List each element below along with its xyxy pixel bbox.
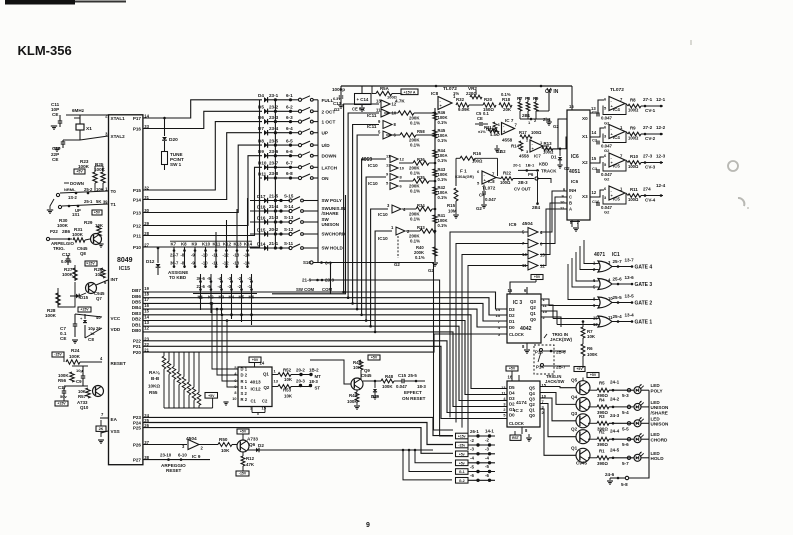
fuse F1: [455, 169, 478, 187]
svg-text:27-1: 27-1: [643, 97, 653, 102]
svg-text:R48: R48: [385, 374, 394, 379]
resistor R10: [626, 154, 666, 170]
svg-text:JACK(SW): JACK(SW): [550, 337, 572, 342]
svg-text:CV IN: CV IN: [545, 89, 559, 95]
label led /SHARE1: [651, 410, 668, 415]
wire com exit b: [331, 280, 454, 436]
svg-text:1S-2: 1S-2: [68, 195, 78, 200]
resistor array R55 element 8: [197, 352, 201, 408]
svg-text:13-5: 13-5: [625, 294, 635, 299]
wire bus DB1: [143, 326, 507, 400]
svg-text:13-4: 13-4: [625, 313, 635, 318]
resistor array R55 element 2: [167, 352, 171, 408]
svg-text:C15: C15: [398, 373, 407, 378]
svg-text:K14: K14: [244, 242, 253, 247]
scan artifact top bar: [5, 0, 126, 5]
svg-text:C12: C12: [62, 252, 71, 257]
svg-text:0.047: 0.047: [485, 197, 497, 202]
svg-text:T1: T1: [111, 202, 117, 207]
diode D20: [162, 118, 178, 143]
svg-text:10K: 10K: [284, 377, 293, 382]
svg-text:RA⅛: RA⅛: [149, 370, 161, 375]
resistor R40: [414, 245, 437, 260]
svg-text:-15V: -15V: [54, 353, 62, 357]
wire port staircase 4: [143, 133, 262, 200]
svg-text:-2: -2: [485, 438, 489, 443]
svg-text:G2: G2: [428, 268, 434, 273]
svg-text:K11: K11: [213, 242, 221, 247]
svg-text:R 1: R 1: [241, 379, 248, 384]
svg-text:CV-3: CV-3: [645, 165, 656, 170]
svg-text:16: 16: [508, 375, 513, 380]
transistor Q1: [540, 409, 590, 462]
pin IC2 left numbers: [501, 386, 506, 418]
label SWUNIS.IN: [322, 206, 346, 211]
svg-text:CLOCK: CLOCK: [509, 332, 524, 337]
svg-text:10KΩ: 10KΩ: [148, 384, 160, 389]
svg-text:11: 11: [376, 108, 381, 113]
svg-text:5: 5: [503, 414, 505, 418]
power +5V box ic9: [531, 275, 543, 280]
svg-text:Q0: Q0: [529, 413, 535, 418]
svg-text:C1: C1: [592, 110, 598, 115]
label led LED3: [651, 432, 661, 437]
pin IC3 right numbers: [543, 297, 548, 320]
op-amp IC7a: [494, 118, 517, 154]
power +5V box p14: [574, 367, 585, 372]
svg-text:R4: R4: [599, 397, 605, 402]
switch UP: [47, 199, 108, 217]
label /SHARE: [322, 211, 339, 216]
svg-text:-11: -11: [212, 253, 218, 258]
resistor R52: [272, 368, 321, 383]
buffer IC9 a: [508, 228, 543, 237]
wire led common: [605, 390, 649, 487]
wire DAC bit 5: [351, 125, 379, 305]
svg-text:Q10: Q10: [80, 405, 89, 410]
resistor R3: [588, 413, 634, 432]
wire conn tails: [415, 450, 452, 463]
svg-text:CE 0.1: CE 0.1: [352, 107, 365, 112]
node column K6: [248, 274, 255, 325]
svg-text:2B-3: 2B-3: [518, 180, 528, 185]
connector -2: [456, 438, 496, 448]
svg-text:15: 15: [592, 156, 597, 161]
node KBD TRACK2: [513, 162, 557, 174]
svg-text:D15: D15: [80, 295, 89, 300]
svg-text:D20: D20: [169, 137, 178, 143]
op-amp IC8: [431, 86, 457, 110]
svg-text:0.047: 0.047: [396, 384, 408, 389]
svg-text:13: 13: [501, 386, 505, 390]
power +15V A box: [400, 89, 418, 95]
svg-text:DB4: DB4: [132, 305, 142, 310]
power -15V box a: [85, 261, 97, 266]
svg-text:A733: A733: [247, 437, 258, 442]
label arpeggio trig: [51, 241, 75, 251]
svg-text:D8: D8: [258, 139, 264, 144]
wire port staircase 7: [143, 167, 262, 235]
resistor R32: [453, 91, 471, 112]
resistor R13: [542, 141, 560, 155]
svg-text:HOLD: HOLD: [651, 456, 665, 461]
svg-text:SW HOLD: SW HOLD: [322, 246, 344, 251]
svg-text:VCC: VCC: [111, 316, 121, 321]
svg-text:12-4: 12-4: [656, 183, 666, 188]
svg-text:P16: P16: [133, 126, 142, 131]
svg-text:P14: P14: [536, 365, 544, 370]
resistor array R55 element 3: [172, 352, 176, 408]
label C945 drivers: [576, 461, 587, 466]
svg-text:R33: R33: [417, 225, 425, 230]
inverter IC10 c: [386, 172, 403, 181]
svg-text:+5v: +5v: [459, 461, 465, 465]
svg-text:VSS: VSS: [111, 429, 120, 434]
svg-text:G2: G2: [334, 107, 340, 112]
capacitor C16 0.047: [592, 193, 626, 215]
svg-text:IC11: IC11: [367, 113, 377, 118]
resistor 200K shunt 5: [402, 203, 436, 222]
svg-text:5-8: 5-8: [621, 482, 628, 487]
label led LED0: [651, 383, 661, 388]
wires q7 area: [58, 265, 75, 307]
switch S-12: [289, 230, 318, 236]
svg-text:10K: 10K: [221, 448, 230, 453]
svg-text:40: 40: [96, 315, 101, 320]
svg-text:D3: D3: [509, 307, 515, 312]
capacitor C9: [76, 366, 85, 386]
diode D2: [247, 436, 433, 453]
svg-text:100Ω: 100Ω: [628, 136, 639, 141]
resistor R43: [433, 167, 448, 182]
resistor R26: [94, 267, 105, 278]
svg-text:K9: K9: [192, 242, 198, 247]
svg-text:DB6: DB6: [132, 294, 142, 299]
or-gate IC1 c: [593, 294, 652, 309]
node column K9: [191, 242, 198, 269]
svg-text:R55: R55: [149, 390, 158, 395]
svg-text:XTAL2: XTAL2: [111, 134, 126, 139]
svg-text:R29: R29: [84, 220, 93, 225]
svg-text:24-6: 24-6: [605, 472, 615, 477]
label trig in jacksw: [544, 332, 572, 342]
wire com exit a: [331, 263, 454, 431]
svg-text:UNISON: UNISON: [322, 222, 340, 227]
wire bus P20: [143, 334, 507, 352]
svg-text:DB3: DB3: [132, 311, 142, 316]
svg-text:P22: P22: [133, 339, 142, 344]
svg-text:4013: 4013: [250, 380, 261, 386]
resistor R11: [626, 183, 666, 203]
pin DB1: [132, 320, 150, 327]
svg-text:D7: D7: [258, 126, 264, 131]
svg-text:2: 2: [503, 408, 505, 412]
svg-text:P13: P13: [133, 210, 142, 215]
svg-text:8: 8: [234, 391, 236, 395]
svg-text:100Ω: 100Ω: [628, 108, 639, 113]
svg-text:Q1: Q1: [529, 408, 535, 413]
switch 1 OCT: [291, 118, 336, 125]
pin P25: [133, 423, 150, 430]
svg-text:100K: 100K: [78, 164, 90, 169]
wire port staircase 3: [143, 122, 262, 190]
resistor R5A: [341, 86, 436, 104]
resistor R27: [62, 267, 77, 280]
svg-text:20-1: 20-1: [513, 163, 522, 168]
pin IC6 b: [555, 200, 572, 206]
svg-text:SW 1: SW 1: [170, 162, 182, 167]
svg-text:6-7: 6-7: [286, 161, 293, 166]
svg-text:20-3: 20-3: [296, 379, 305, 384]
resistor R9b: [533, 96, 539, 111]
label TL072 out: [610, 87, 624, 93]
svg-text:R47: R47: [349, 393, 358, 398]
svg-text:D15: D15: [257, 227, 266, 232]
resistor R15: [447, 188, 459, 218]
svg-text:100Ω: 100Ω: [628, 164, 639, 169]
resistor R14: [511, 141, 523, 151]
label led UNISON1: [651, 405, 670, 410]
svg-text:G2: G2: [476, 206, 482, 211]
svg-text:1000p: 1000p: [332, 87, 345, 92]
svg-text:-4: -4: [470, 456, 474, 461]
svg-text:20-2: 20-2: [269, 227, 279, 232]
svg-text:G2: G2: [496, 149, 502, 154]
transistor Q3: [540, 398, 590, 428]
pin IC6 x1: [590, 128, 604, 137]
capacitor C13: [332, 86, 345, 112]
svg-text:10K: 10K: [95, 223, 104, 228]
capacitor C8: [75, 314, 102, 342]
pin IC12 left numbers: [232, 366, 237, 401]
svg-text:4051: 4051: [569, 169, 580, 175]
label led HOLD4: [651, 456, 665, 461]
pin IC12 bottom: [250, 399, 268, 416]
svg-text:U/D: U/D: [322, 143, 331, 148]
svg-text:12: 12: [400, 157, 405, 162]
svg-text:25-5: 25-5: [408, 373, 417, 378]
svg-text:D16: D16: [257, 215, 266, 220]
svg-text:Q5: Q5: [529, 386, 535, 391]
svg-text:DB2: DB2: [132, 317, 142, 322]
resistor R5: [588, 380, 634, 399]
svg-text:100K: 100K: [587, 352, 598, 357]
ground IC12: [223, 399, 238, 405]
wire opamp row: [469, 104, 545, 106]
transistor Q4: [540, 393, 590, 412]
svg-text:D4: D4: [509, 391, 515, 396]
diode D9: [258, 149, 293, 159]
resistor R49: [353, 360, 372, 378]
wire K1-K6 underline: [193, 293, 257, 295]
led Q4: [634, 401, 649, 411]
capacitor C4: [476, 185, 497, 212]
pin EA: [111, 417, 118, 422]
power -15V box c: [52, 352, 64, 357]
svg-text:+15V: +15V: [80, 308, 89, 312]
resistor R41: [433, 213, 448, 228]
svg-text:K7: K7: [171, 242, 177, 247]
diode D16: [250, 215, 294, 225]
svg-text:0.1%: 0.1%: [410, 217, 420, 222]
buffer IC9 e: [143, 436, 218, 459]
pin P27: [133, 455, 150, 462]
svg-text:G2: G2: [604, 210, 610, 215]
svg-text:10: 10: [232, 397, 236, 401]
inverter IC10 b: [386, 163, 405, 172]
svg-text:K5: K5: [239, 295, 245, 300]
svg-text:-15V: -15V: [239, 472, 247, 476]
svg-text:+5V: +5V: [371, 356, 378, 360]
svg-text:C945: C945: [576, 461, 587, 466]
svg-text:R22: R22: [503, 171, 512, 176]
pin IC6 gnd: [570, 220, 580, 231]
svg-text:DB0: DB0: [132, 328, 142, 333]
led Q5: [634, 384, 649, 394]
resistor R46: [433, 110, 448, 125]
resistor 200K shunt 3: [399, 157, 436, 176]
led Q1: [634, 452, 649, 462]
diode D15: [70, 293, 89, 300]
svg-text:14: 14: [496, 307, 501, 312]
svg-text:CE: CE: [52, 157, 58, 162]
svg-text:-12: -12: [223, 261, 230, 266]
svg-text:14-1: 14-1: [485, 429, 494, 434]
svg-text:P27: P27: [133, 457, 142, 462]
svg-text:UP: UP: [322, 131, 329, 136]
svg-text:R32: R32: [456, 97, 465, 102]
resistor 200K shunt 4: [399, 175, 436, 194]
resistor R44: [433, 148, 448, 163]
node arpeggio reset: [143, 453, 210, 474]
svg-text:R58: R58: [417, 129, 425, 134]
svg-text:Q2: Q2: [530, 305, 536, 310]
svg-text:C9: C9: [76, 379, 82, 384]
wire VSS: [101, 431, 108, 433]
svg-text:GATE 3: GATE 3: [635, 282, 653, 288]
inverter IC11 a: [376, 99, 397, 109]
svg-text:Q5: Q5: [571, 378, 578, 383]
pin P21: [133, 342, 150, 349]
svg-text:Q8: Q8: [80, 251, 86, 256]
svg-text:27-3: 27-3: [643, 154, 653, 159]
svg-text:IC7: IC7: [534, 154, 541, 159]
connector -5: [456, 464, 496, 474]
pin P22: [133, 336, 150, 343]
svg-text:0.1: 0.1: [483, 111, 489, 116]
op-amp IC5 CV-4: [604, 186, 625, 202]
svg-text:C8: C8: [88, 337, 94, 342]
svg-text:IC6: IC6: [571, 154, 579, 160]
svg-text:+5v: +5v: [459, 452, 465, 456]
wire bus DB6: [143, 298, 507, 315]
svg-text:CLOCK: CLOCK: [509, 421, 524, 426]
scan artifact blob b: [738, 198, 749, 209]
mcu U-8049 IC15: [109, 115, 143, 465]
svg-text:RST: RST: [512, 436, 520, 440]
svg-text:IC 3: IC 3: [513, 300, 522, 306]
svg-text:R5A: R5A: [380, 86, 390, 91]
svg-text:27-2: 27-2: [643, 125, 653, 130]
svg-text:100K: 100K: [69, 354, 81, 359]
svg-text:IC4: IC4: [613, 135, 620, 140]
svg-text:CE: CE: [52, 112, 58, 117]
svg-text:CE: CE: [60, 336, 66, 341]
svg-text:1B-2: 1B-2: [309, 368, 319, 373]
diode D1: [551, 137, 570, 171]
pin IC3 6: [524, 287, 527, 294]
svg-text:+15v: +15v: [458, 435, 466, 439]
svg-text:ON: ON: [322, 176, 330, 181]
capacitor C10: [51, 136, 108, 162]
diode D18: [250, 204, 294, 214]
svg-text:-4: -4: [485, 455, 489, 460]
svg-text:D1: D1: [551, 155, 557, 160]
capacitor C14: [352, 86, 371, 112]
svg-text:100Ω: 100Ω: [531, 130, 542, 135]
transistor Q8: [77, 234, 104, 257]
svg-text:R16: R16: [473, 151, 482, 156]
svg-text:C1: C1: [251, 399, 257, 404]
svg-text:Q2: Q2: [529, 402, 535, 407]
pin IC6 16: [569, 86, 574, 110]
svg-text:P10: P10: [133, 245, 142, 250]
svg-text:13: 13: [496, 313, 501, 318]
label effect on reset: [402, 390, 426, 401]
label G2 r16: [496, 149, 502, 154]
svg-text:-13: -13: [233, 253, 240, 258]
svg-text:12-3: 12-3: [656, 154, 666, 159]
svg-text:8049: 8049: [117, 257, 133, 264]
resistor R24: [64, 348, 103, 364]
svg-text:2B-6: 2B-6: [556, 350, 566, 355]
label led LED1: [651, 400, 661, 405]
svg-text:0.1%: 0.1%: [438, 120, 448, 125]
svg-text:24-1: 24-1: [610, 380, 620, 385]
svg-text:22-7: 22-7: [170, 253, 179, 258]
pin IC3 8 ground: [522, 343, 530, 353]
svg-text:0.1%: 0.1%: [438, 177, 448, 182]
resistor R22: [496, 171, 534, 186]
switch SW1 tune: [162, 117, 184, 170]
title KLM-356: [18, 43, 72, 58]
svg-text:+15V A: +15V A: [404, 90, 416, 94]
resistor P8: [525, 96, 531, 111]
pin VDD: [111, 327, 121, 332]
svg-text:IC5: IC5: [613, 197, 620, 202]
svg-text:100K: 100K: [382, 384, 393, 389]
svg-text:Q1: Q1: [571, 445, 578, 450]
resistor R2: [588, 429, 634, 448]
svg-text:+5V: +5V: [576, 367, 583, 371]
pin IC6 c: [558, 194, 572, 200]
svg-text:P6: P6: [528, 172, 534, 177]
svg-text:S 2: S 2: [241, 391, 248, 396]
label SW: [322, 217, 330, 222]
svg-text:12-2: 12-2: [656, 125, 666, 130]
label IC11 a: [367, 113, 377, 118]
pin IC12 14: [249, 357, 265, 367]
node column K14: [244, 198, 253, 268]
svg-text:DB7: DB7: [132, 288, 142, 293]
svg-text:D2: D2: [258, 443, 264, 448]
svg-text:Q1: Q1: [263, 372, 269, 377]
svg-text:274: 274: [643, 187, 651, 192]
svg-text:D14: D14: [257, 241, 266, 246]
svg-text:R10: R10: [630, 154, 639, 159]
wire xtal: [59, 115, 61, 118]
svg-text:Q3: Q3: [529, 397, 535, 402]
